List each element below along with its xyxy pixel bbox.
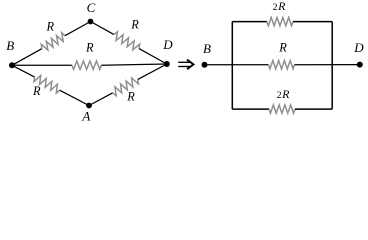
svg-text:R: R <box>32 84 41 98</box>
svg-text:R: R <box>45 20 54 34</box>
node D (left circuit) <box>164 61 170 67</box>
equivalence arrow (double right arrow) <box>178 60 193 70</box>
resistor R1 (B-C arm) <box>41 33 65 50</box>
right bus wire (right circuit) <box>331 22 333 110</box>
svg-text:B: B <box>203 41 211 56</box>
wire B to middle R (right circuit) <box>205 64 269 66</box>
wire R to A (B-A arm) <box>60 90 89 105</box>
wire B to R (B-C arm) <box>12 49 42 66</box>
resistor R5 (middle B-D branch) <box>72 61 102 69</box>
left bus wire (right circuit) <box>231 22 233 110</box>
svg-text:R: R <box>278 40 287 54</box>
resistor R4 (A-D arm) <box>113 78 139 96</box>
svg-text:C: C <box>87 0 96 15</box>
resistor 2R (top branch) <box>267 17 293 25</box>
svg-text:R: R <box>130 17 139 31</box>
svg-text:D: D <box>162 37 173 52</box>
wire middle R to D (right circuit) <box>295 64 360 66</box>
svg-text:R: R <box>85 40 94 54</box>
wire R to C (B-C arm) <box>65 22 91 36</box>
svg-text:2R: 2R <box>277 87 291 101</box>
wire top-left to 2R (top branch) <box>232 21 267 23</box>
wire B to R (B-A arm) <box>12 65 35 77</box>
svg-text:2R: 2R <box>273 0 287 13</box>
svg-text:D: D <box>353 40 364 55</box>
node B (right circuit) <box>202 62 208 68</box>
wire 2R to bottom-right (bottom branch) <box>295 108 332 110</box>
wire C to R (C-D arm) <box>91 22 115 35</box>
wire R to D (A-D arm) <box>138 64 167 79</box>
resistor R (middle branch, right circuit) <box>269 61 295 69</box>
svg-text:B: B <box>6 38 14 53</box>
resistor R2 (C-D arm) <box>114 32 140 50</box>
resistor 2R (bottom branch) <box>269 105 295 113</box>
wire bottom-left to 2R (bottom branch) <box>232 108 269 110</box>
svg-text:R: R <box>126 89 135 103</box>
wire 2R to top-right (top branch) <box>293 21 332 23</box>
circuit schematic: bridge network and its parallel equivalent <box>0 0 368 126</box>
wire middle R to D <box>101 64 166 65</box>
node A <box>86 103 92 109</box>
node B (left circuit) <box>9 62 15 68</box>
resistor R3 (B-A arm) <box>34 76 60 94</box>
svg-text:A: A <box>81 108 90 123</box>
wire R to D (C-D arm) <box>139 49 167 64</box>
node D (right circuit) <box>357 62 363 68</box>
node C <box>88 19 94 25</box>
wire A to R (A-D arm) <box>89 93 113 106</box>
wire B to middle R <box>12 64 72 66</box>
